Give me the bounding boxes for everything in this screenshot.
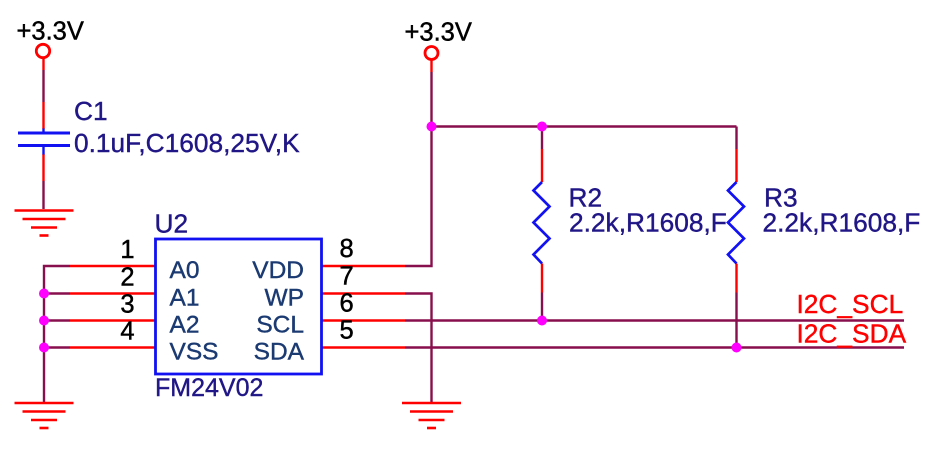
svg-text:A0: A0 [170, 257, 200, 284]
svg-text:1: 1 [120, 236, 134, 264]
svg-text:2.2k,R1608,F: 2.2k,R1608,F [763, 208, 921, 238]
svg-text:2.2k,R1608,F: 2.2k,R1608,F [569, 208, 727, 238]
svg-text:A1: A1 [170, 285, 200, 312]
svg-text:8: 8 [340, 235, 354, 263]
svg-text:4: 4 [120, 318, 134, 346]
svg-text:SDA: SDA [254, 339, 305, 366]
svg-text:I2C_SCL: I2C_SCL [797, 289, 904, 319]
svg-text:U2: U2 [155, 209, 189, 239]
svg-text:SCL: SCL [256, 312, 304, 339]
svg-text:5: 5 [340, 317, 354, 345]
svg-text:+3.3V: +3.3V [405, 19, 472, 47]
svg-text:VSS: VSS [170, 339, 219, 366]
svg-text:C1: C1 [74, 96, 108, 126]
svg-text:A2: A2 [170, 312, 200, 339]
svg-text:FM24V02: FM24V02 [155, 374, 263, 402]
svg-text:3: 3 [120, 291, 134, 319]
svg-text:2: 2 [120, 264, 134, 292]
svg-text:7: 7 [340, 263, 354, 291]
svg-text:VDD: VDD [252, 257, 304, 284]
svg-text:WP: WP [265, 285, 304, 312]
svg-text:6: 6 [340, 290, 354, 318]
svg-text:I2C_SDA: I2C_SDA [797, 319, 907, 349]
svg-text:0.1uF,C1608,25V,K: 0.1uF,C1608,25V,K [74, 128, 300, 158]
svg-text:+3.3V: +3.3V [17, 18, 84, 46]
